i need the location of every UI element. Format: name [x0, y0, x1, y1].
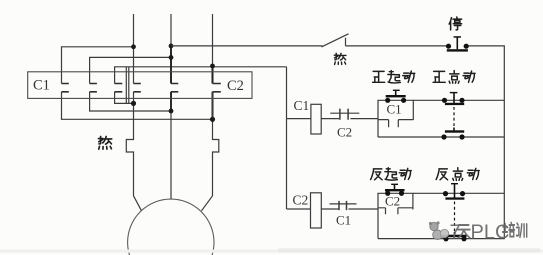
stop button 停 — [446, 17, 469, 52]
jog button 反点动 symbol — [442, 183, 467, 241]
self-hold inner contact — [378, 208, 413, 215]
NC bar — [445, 197, 464, 199]
contact C1-1 plates — [62, 84, 69, 92]
contact C2-1 plates — [134, 84, 141, 92]
bottom light bar — [0, 250, 543, 253]
NC dots — [442, 98, 447, 103]
junction dots main circuit — [131, 44, 215, 122]
node L2/control — [169, 44, 174, 49]
wire column2 lower link to phase2 — [90, 92, 171, 111]
node L3/control — [210, 64, 215, 69]
coil C2 — [311, 193, 322, 228]
NC interlock C2 crossbar — [330, 112, 359, 114]
node U link — [131, 101, 136, 106]
node L1/top — [131, 44, 136, 49]
wire branch C2 coil — [287, 208, 340, 210]
node L2/col2 — [169, 55, 174, 60]
wire branch C1 coil — [287, 118, 340, 120]
wire to self-hold box — [349, 208, 379, 210]
button stem — [456, 37, 458, 49]
NO bar — [442, 235, 467, 238]
NC dots — [443, 191, 448, 196]
contactor box — [28, 72, 252, 99]
thermal NC contact slash — [322, 34, 349, 47]
svg-text:C1: C1 — [294, 98, 310, 113]
wire phase L3 top feeder — [212, 14, 214, 66]
wire jog top rail — [413, 192, 504, 194]
start button 反起动 — [385, 184, 405, 196]
button bridge bar — [447, 49, 468, 51]
wire phase1 lower with thermal element bump — [126, 92, 141, 211]
contact C2-3 plates — [213, 84, 221, 92]
watermark logo — [429, 221, 449, 239]
wire stop to right rail corner — [466, 46, 504, 239]
label 反起动 — [371, 168, 412, 180]
label 正点动 — [433, 71, 475, 84]
NC stem + cap — [454, 184, 456, 198]
label 热 (control) — [334, 53, 346, 64]
wire crossover double link — [126, 67, 129, 104]
NC bar — [445, 103, 464, 105]
coil C1 — [311, 104, 321, 134]
button cap — [454, 36, 461, 38]
contact C2-2 plates — [171, 84, 178, 92]
wire phase L1 top feeder — [133, 14, 135, 84]
NO dots — [443, 236, 448, 241]
NO bar — [445, 130, 464, 132]
wire column1 lower link to phase3 — [62, 92, 213, 120]
label 热 (thermal relay, main) — [98, 136, 111, 149]
wire phase L2 top feeder — [170, 14, 172, 84]
wire L2 to C1 column2 — [90, 57, 171, 83]
NC stem + cap — [453, 93, 455, 103]
svg-text:C1: C1 — [387, 102, 402, 117]
node W link — [210, 117, 215, 122]
wire L3 to C1 column3 and control tap — [115, 67, 287, 84]
wire jog bottom rail — [378, 136, 504, 138]
dashed link — [454, 202, 456, 233]
wire phase3 lower with thermal element bump — [202, 92, 219, 211]
label 停 — [449, 17, 461, 30]
svg-text:C2: C2 — [227, 78, 244, 94]
node V link — [169, 109, 174, 114]
svg-text:C1: C1 — [336, 213, 351, 228]
wire jog top rail — [413, 99, 504, 101]
label 正起动 — [373, 71, 415, 83]
wire control top rail to thermal contact — [171, 45, 323, 47]
contactor main contacts: plates — [62, 84, 221, 92]
self-hold inner contact — [378, 120, 413, 128]
jog button 正点动 symbol — [441, 92, 464, 140]
wire phase3 bold segments — [212, 66, 214, 119]
wire jog bottom rail — [378, 238, 504, 240]
wire L1 to C1 column1 — [62, 47, 134, 84]
wire thermal to stop button — [346, 45, 449, 47]
svg-text:C1: C1 — [33, 78, 50, 94]
self-hold box outline — [378, 193, 413, 238]
svg-text:C2: C2 — [293, 193, 309, 208]
button dots — [446, 44, 451, 49]
contact C1-2 plates — [90, 84, 97, 92]
contact C1-3 plates — [115, 84, 123, 92]
wire to self-hold box — [350, 118, 378, 120]
wire phase2 lower to motor — [170, 111, 172, 199]
wire column3 lower link to phase1 — [115, 92, 134, 104]
svg-text:C2: C2 — [337, 125, 352, 140]
label 反点动 — [436, 168, 479, 181]
motor circle — [128, 199, 214, 255]
wire left control rail — [286, 67, 288, 209]
dashed link — [453, 107, 455, 128]
NC interlock C2 plates — [340, 109, 348, 120]
NC interlock C1 plates — [339, 201, 347, 210]
NO dots — [441, 134, 446, 139]
start button 正起动 — [385, 90, 406, 103]
watermark text 7天PLC培训 — [450, 222, 527, 244]
wire phase2 bold segments — [170, 46, 172, 111]
NC interlock C1 crossbar — [330, 203, 357, 205]
self-hold box outline — [378, 100, 413, 137]
